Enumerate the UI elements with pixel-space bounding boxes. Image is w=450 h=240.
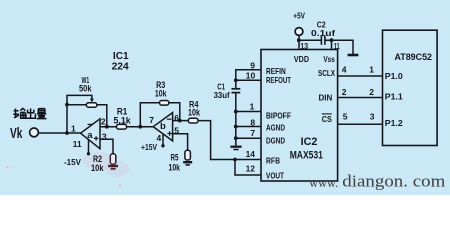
pin 4 power stub [162, 134, 164, 146]
svg-text:5.1k: 5.1k [114, 115, 132, 125]
svg-text:3: 3 [370, 112, 375, 122]
ground below R2 [108, 165, 118, 167]
svg-text:10k: 10k [155, 88, 167, 98]
svg-text:8: 8 [250, 118, 255, 128]
svg-text:4: 4 [342, 65, 347, 75]
terminal Vk (output terminal circle) [30, 128, 39, 137]
svg-text:REFOUT: REFOUT [266, 75, 292, 85]
svg-text:b: b [160, 121, 166, 132]
svg-text:VOUT: VOUT [266, 170, 285, 180]
wire R3 feedback loop [168, 103, 180, 121]
op-amp a (IC1 section A) [81, 119, 101, 149]
svg-text:4: 4 [157, 133, 162, 143]
resistor R3 body [160, 101, 169, 106]
svg-text:2: 2 [369, 87, 374, 97]
svg-text:www.: www. [309, 175, 338, 190]
svg-text:10k: 10k [169, 162, 181, 172]
wire to C2 [299, 39, 321, 41]
svg-text:P1.1: P1.1 [385, 91, 403, 101]
svg-text:13: 13 [300, 41, 308, 51]
svg-text:-15V: -15V [64, 157, 81, 167]
svg-text:10k: 10k [91, 163, 104, 173]
node W1 left junction [65, 103, 69, 107]
capacitor C2 [320, 36, 322, 45]
node R3 feedback junction [138, 125, 142, 129]
wire CS to P1.2 [338, 123, 383, 125]
svg-text:14: 14 [246, 149, 256, 159]
resistor R4 body [188, 118, 198, 123]
svg-text:2: 2 [101, 117, 106, 127]
wire feedback riser left [67, 105, 86, 133]
wire BIPOFF pin1 [236, 111, 261, 113]
svg-text:10: 10 [246, 70, 256, 80]
wire pin 5 to R5 [173, 134, 188, 151]
wire W1 right to pin2 riser [97, 105, 107, 127]
svg-text:5: 5 [343, 112, 348, 122]
svg-text:MAX531: MAX531 [290, 149, 323, 161]
svg-text:1: 1 [250, 101, 255, 111]
svg-text:50k: 50k [79, 84, 92, 94]
potentiometer W1 wiper arrow [90, 99, 94, 103]
resistor R1 body [117, 124, 127, 129]
svg-text:+5V: +5V [293, 10, 305, 20]
wire R4 to RFB/VOUT [198, 121, 261, 160]
node pin6 junction [178, 119, 182, 123]
ground below R5 [183, 161, 192, 163]
wire REFOUT pin10 [236, 79, 261, 81]
resistor R5 body [185, 150, 191, 160]
svg-text:11: 11 [73, 139, 82, 149]
ground bus symbol [230, 146, 241, 148]
capacitor C1 [232, 88, 241, 90]
svg-text:P1.2: P1.2 [385, 118, 403, 128]
svg-text:BIPOFF: BIPOFF [266, 111, 291, 121]
svg-text:diangon. com: diangon. com [342, 172, 445, 191]
svg-text:DGND: DGND [266, 135, 285, 145]
svg-text:Vk: Vk [10, 125, 23, 142]
wire R1 to op-amp b tip [127, 126, 154, 128]
wire R3 to output riser [140, 103, 159, 127]
wire Vk to op-amp a output [39, 132, 81, 134]
svg-text:IC1: IC1 [113, 51, 129, 62]
svg-text:7: 7 [250, 128, 255, 138]
svg-text:R5: R5 [171, 152, 179, 162]
svg-text:1: 1 [369, 65, 374, 75]
op-amp b (IC1 section B) [153, 113, 172, 141]
node junction feedback/output [65, 131, 69, 135]
svg-text:IC2: IC2 [301, 136, 318, 148]
svg-text:AT89C52: AT89C52 [395, 52, 433, 63]
IC2 MAX531 box [261, 50, 338, 182]
svg-text:AGND: AGND [266, 122, 285, 132]
svg-text:0.1uf: 0.1uf [311, 28, 335, 38]
svg-text:Vss: Vss [323, 54, 335, 64]
resistor R2 body [110, 154, 116, 165]
wire pin2 to R1 [100, 126, 117, 128]
svg-text:12: 12 [246, 164, 256, 174]
ground at C2 [348, 54, 359, 57]
svg-text:2: 2 [342, 87, 347, 97]
svg-text:33uf: 33uf [214, 90, 230, 100]
svg-text:SCLX: SCLX [318, 68, 335, 78]
svg-text:CS: CS [322, 114, 332, 124]
svg-text:1: 1 [71, 124, 76, 134]
wire DIN to P1.1 [338, 97, 383, 99]
watermark speck [118, 184, 121, 187]
wire W1 wiper loop [67, 95, 92, 104]
wire pin 6 stub [173, 120, 189, 122]
svg-text:10k: 10k [188, 108, 201, 118]
watermark speck [6, 166, 9, 169]
wire AGND pin8 [236, 126, 261, 128]
svg-text:a: a [87, 130, 93, 141]
node pin2 junction [105, 125, 109, 129]
node RFB/VOUT junction [233, 158, 237, 162]
wire REFIN pin9 [236, 70, 261, 89]
pin 11 power stub [88, 139, 90, 153]
svg-text:VDD: VDD [294, 54, 309, 64]
svg-text:P1.0: P1.0 [385, 71, 403, 81]
svg-text:RFB: RFB [266, 155, 280, 165]
potentiometer W1 body [86, 103, 96, 107]
svg-text:DIN: DIN [319, 92, 333, 102]
wire pin 3 to R2 [100, 139, 113, 154]
svg-text:+15V: +15V [141, 142, 157, 152]
wire VOUT riser [235, 160, 261, 176]
wire +5V to VDD [298, 36, 300, 50]
pin 11 stub [331, 40, 333, 49]
wire C2 to ground [325, 40, 353, 54]
svg-text:9: 9 [250, 61, 255, 71]
watermark smudge pink [83, 152, 115, 170]
wire SCLX to P1.0 [338, 75, 383, 77]
wire C1 to ground bus [235, 93, 237, 146]
svg-text:7: 7 [149, 115, 154, 125]
svg-text:224: 224 [112, 62, 130, 73]
wire DGND pin7 [236, 137, 261, 139]
svg-text:11: 11 [334, 41, 340, 51]
svg-text:3: 3 [102, 132, 107, 142]
MCU AT89C52 box [383, 30, 438, 145]
label 输出量 (output quantity) [13, 108, 46, 118]
